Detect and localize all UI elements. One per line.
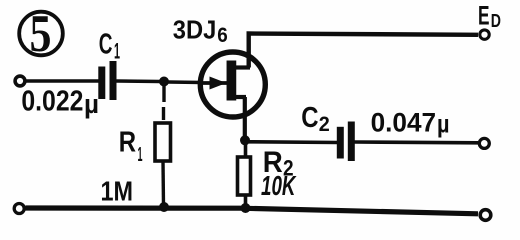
wire C1 to node A <box>117 79 161 83</box>
left rail terminal <box>14 204 24 214</box>
output terminal <box>479 138 489 148</box>
svg-text:µ: µ <box>84 89 99 119</box>
rail junction dot at R2 <box>241 203 251 213</box>
svg-text:10K: 10K <box>261 170 297 201</box>
svg-text:µ: µ <box>437 111 450 139</box>
transistor Q1 3DJ6 <box>200 52 265 117</box>
capacitor C1 <box>102 61 113 100</box>
svg-text:1: 1 <box>114 38 120 63</box>
svg-text:C: C <box>301 102 318 134</box>
wire node A to gate <box>168 80 202 84</box>
svg-text:R: R <box>119 127 136 159</box>
right rail terminal <box>480 210 491 221</box>
label C1 <box>99 28 120 63</box>
node A junction dot <box>159 77 169 87</box>
wire drain to supply rail <box>249 34 478 68</box>
svg-text:0.047: 0.047 <box>371 108 437 138</box>
wire node B to R2 <box>244 144 248 157</box>
svg-text:6: 6 <box>217 24 228 47</box>
svg-text:0.022: 0.022 <box>21 85 83 117</box>
node B junction dot <box>240 135 250 145</box>
wire node A to R1 (broken) <box>162 85 166 120</box>
svg-text:3DJ: 3DJ <box>173 14 217 44</box>
svg-text:1M: 1M <box>101 176 134 207</box>
value 0.047u <box>371 108 450 139</box>
input terminal <box>15 76 25 86</box>
label R1 <box>119 127 143 166</box>
wire source down to node B <box>243 97 247 138</box>
rail junction dot at R1 <box>159 202 169 212</box>
label C2 <box>301 102 330 136</box>
wire R1 to rail <box>161 161 165 206</box>
svg-text:2: 2 <box>319 113 330 136</box>
capacitor C2 <box>340 122 351 162</box>
label R2 <box>263 146 294 181</box>
resistor R1 <box>155 123 171 161</box>
wire C2 to output terminal <box>355 140 479 144</box>
svg-text:5: 5 <box>30 5 52 63</box>
wire input to C1 <box>25 79 100 83</box>
svg-text:C: C <box>99 28 113 60</box>
svg-text:1: 1 <box>138 144 143 166</box>
common bottom rail <box>26 208 479 214</box>
label 3DJ6 <box>173 14 228 47</box>
wire node B to C2 <box>249 140 338 144</box>
supply terminal ED <box>478 0 501 39</box>
svg-text:E: E <box>478 0 490 30</box>
svg-text:D: D <box>491 11 501 31</box>
value 0.022u <box>21 85 99 119</box>
figure number circled 5 <box>19 5 63 63</box>
resistor R2 <box>238 157 251 195</box>
wire R2 to rail <box>244 195 248 208</box>
